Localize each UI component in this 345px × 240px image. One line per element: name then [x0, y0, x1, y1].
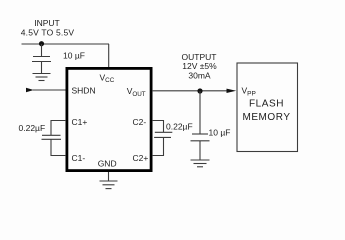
svg-text:30mA: 30mA: [188, 71, 211, 81]
node INPUT label: [21, 18, 75, 38]
svg-text:10 µF: 10 µF: [209, 128, 231, 138]
wire VOUT: [152, 90, 228, 92]
SHDN input arrow: [26, 88, 34, 92]
capacitor C_IN 10uF: [32, 44, 51, 74]
svg-text:GND: GND: [98, 159, 117, 169]
svg-text:C2+: C2+: [133, 153, 149, 163]
svg-text:SHDN: SHDN: [72, 85, 96, 95]
svg-text:FLASH: FLASH: [249, 99, 284, 110]
svg-text:10 µF: 10 µF: [63, 51, 85, 61]
capacitor C_OUT 10uF: [191, 91, 210, 160]
wire SHDN: [33, 89, 66, 91]
junction output node: [197, 88, 202, 93]
wire input rail: [22, 43, 110, 45]
svg-text:INPUT: INPUT: [34, 18, 60, 28]
svg-text:C1-: C1-: [72, 153, 86, 163]
svg-text:4.5V TO 5.5V: 4.5V TO 5.5V: [21, 28, 75, 38]
arrow into flash VPP: [227, 89, 237, 93]
ground output cap: [191, 160, 210, 167]
svg-text:0.22µF: 0.22µF: [19, 123, 46, 133]
node OUTPUT label: [182, 52, 218, 81]
ground IC GND pin: [100, 172, 118, 189]
junction input node: [39, 41, 44, 46]
svg-text:12V ±5%: 12V ±5%: [182, 61, 217, 71]
svg-text:C1+: C1+: [72, 117, 88, 127]
svg-text:MEMORY: MEMORY: [242, 112, 290, 123]
ground input cap: [33, 74, 51, 81]
capacitor C2 0.22uF flying: [152, 121, 172, 156]
svg-text:C2-: C2-: [133, 117, 147, 127]
label FLASH MEMORY: [242, 99, 290, 124]
flash memory box: [237, 63, 298, 152]
wire VCC stem: [108, 44, 110, 68]
capacitor C1 0.22uF flying: [42, 121, 67, 156]
op-amp U1 charge pump IC box: [67, 68, 151, 170]
svg-text:0.22µF: 0.22µF: [166, 122, 193, 132]
